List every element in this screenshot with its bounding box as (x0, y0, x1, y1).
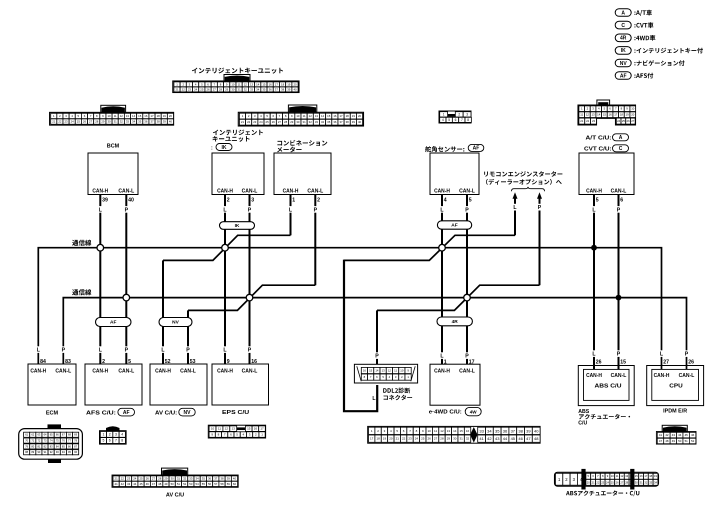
junction bus1 BCM/AFS (open circle) (97, 244, 104, 251)
label P on DDL2 wire (374, 352, 380, 359)
svg-text:8: 8 (121, 439, 123, 443)
svg-text:22: 22 (182, 87, 186, 91)
wire AV C/U CAN-L (187, 310, 189, 364)
box steering angle sensor (425, 144, 484, 213)
svg-text:15: 15 (262, 82, 266, 86)
svg-text:15: 15 (603, 113, 607, 117)
svg-text:36: 36 (269, 87, 273, 91)
svg-text:57: 57 (214, 482, 218, 486)
svg-text:19: 19 (383, 437, 387, 441)
svg-text:39: 39 (163, 120, 167, 124)
svg-text:52: 52 (691, 439, 695, 443)
svg-text:25: 25 (266, 120, 270, 124)
svg-text:32: 32 (120, 120, 124, 124)
svg-text:21: 21 (175, 87, 179, 91)
svg-text:41: 41 (115, 482, 119, 486)
svg-text:C: C (621, 23, 625, 29)
svg-text:20: 20 (358, 114, 362, 118)
svg-text:11: 11 (434, 429, 437, 433)
wire A/T C/U CAN-H to ABS C/U (593, 195, 595, 370)
wire link combination meter CAN-H to bus (163, 235, 291, 260)
svg-text:39: 39 (352, 120, 356, 124)
svg-text:13: 13 (382, 369, 386, 373)
svg-text:AFS C/U:: AFS C/U: (86, 410, 116, 416)
svg-text:32: 32 (309, 120, 313, 124)
svg-text:16: 16 (333, 114, 337, 118)
svg-text:26: 26 (616, 480, 619, 484)
svg-text:CAN-H: CAN-H (434, 188, 450, 194)
svg-text:12: 12 (586, 113, 590, 117)
svg-text:26: 26 (428, 437, 432, 441)
wire remote starter P vertical (539, 211, 541, 286)
svg-text:37: 37 (150, 120, 154, 124)
svg-text:25: 25 (622, 119, 626, 123)
svg-text:12: 12 (620, 474, 623, 478)
svg-text:P: P (538, 205, 542, 211)
svg-text:35: 35 (202, 477, 206, 481)
svg-text:CAN-H: CAN-H (92, 369, 108, 375)
connector ABS actuator C/U (555, 469, 659, 490)
box intelligent key unit (211, 130, 264, 214)
svg-text:13: 13 (232, 427, 236, 431)
svg-text:12: 12 (388, 369, 392, 373)
svg-text:26: 26 (688, 360, 694, 366)
connector steering angle sensor (8-pin) (439, 111, 471, 123)
svg-text:35: 35 (138, 120, 142, 124)
svg-text:34: 34 (132, 120, 136, 124)
svg-text:C/U: C/U (578, 421, 587, 427)
svg-text:7: 7 (115, 439, 117, 443)
svg-text:CAN-H: CAN-H (654, 373, 670, 379)
svg-text:4: 4 (442, 118, 444, 122)
svg-text:CAN-H: CAN-H (586, 373, 602, 379)
svg-text:CAN-H: CAN-H (155, 369, 171, 375)
svg-text:NV: NV (620, 61, 628, 67)
svg-text:25: 25 (139, 477, 143, 481)
svg-text:46: 46 (146, 482, 150, 486)
svg-text:CAN-H: CAN-H (283, 188, 299, 194)
svg-text:ABS C/U: ABS C/U (595, 384, 622, 390)
svg-text:38: 38 (220, 477, 224, 481)
wire BCM CAN-H to AFS C/U (99, 195, 101, 365)
label DDL2 connector (372, 388, 412, 402)
svg-text:41: 41 (479, 436, 484, 441)
svg-text:27: 27 (152, 477, 156, 481)
connector A/T C/U (top-right) (578, 100, 636, 125)
svg-text::: : (211, 145, 213, 151)
svg-text:25: 25 (77, 120, 81, 124)
connector AFS C/U (8-pin) (100, 426, 127, 444)
connector IPDM E/R (656, 425, 696, 444)
svg-text:26: 26 (596, 360, 602, 366)
arrow remote starter L (513, 192, 518, 211)
wire combination meter CAN-L (314, 195, 316, 286)
svg-text:44: 44 (133, 482, 137, 486)
svg-text:17: 17 (370, 437, 374, 441)
svg-text:12: 12 (244, 82, 248, 86)
svg-text:CAN-H: CAN-H (92, 188, 108, 194)
box ECM (28, 346, 76, 416)
svg-text:40: 40 (169, 120, 173, 124)
svg-text:40: 40 (534, 428, 539, 433)
svg-text:15: 15 (327, 114, 331, 118)
svg-text:27: 27 (620, 480, 623, 484)
svg-text:12: 12 (440, 429, 444, 433)
box AV C/U (150, 346, 207, 416)
junction bus1 IK/EPS (open circle) (222, 244, 229, 251)
svg-text:58: 58 (220, 482, 224, 486)
svg-text:30: 30 (231, 87, 235, 91)
svg-text:CAN-L: CAN-L (307, 188, 323, 194)
svg-text:14: 14 (321, 114, 325, 118)
svg-text:9: 9 (227, 359, 230, 365)
junction bus2 IK/EPS (open circle) (246, 294, 253, 301)
wire steering angle sensor CAN-H to e-4WD C/U (441, 195, 443, 365)
svg-text:P: P (125, 207, 129, 213)
svg-text:23: 23 (188, 87, 192, 91)
svg-text:3: 3 (466, 113, 468, 117)
svg-text:31: 31 (238, 87, 242, 91)
svg-text:16: 16 (466, 429, 470, 433)
svg-text:16: 16 (609, 113, 613, 117)
svg-text:30: 30 (453, 437, 457, 441)
svg-text:21: 21 (115, 477, 119, 481)
svg-text:IK: IK (222, 145, 227, 151)
svg-text:15: 15 (369, 369, 373, 373)
svg-text:P: P (186, 348, 190, 354)
svg-text:35: 35 (262, 87, 266, 91)
svg-text:20: 20 (631, 113, 635, 117)
svg-text:10: 10 (400, 369, 404, 373)
svg-text:24: 24 (415, 437, 419, 441)
svg-text:48: 48 (665, 439, 669, 443)
svg-text:19: 19 (352, 114, 356, 118)
box A/T C/U / CVT C/U (579, 134, 634, 214)
wire combination meter CAN-H (290, 195, 292, 236)
svg-text:IK: IK (235, 223, 240, 229)
svg-text:18: 18 (376, 437, 380, 441)
svg-text:10: 10 (211, 427, 215, 431)
svg-text:31: 31 (640, 480, 643, 484)
wire link remote starter L to bus (344, 235, 515, 260)
svg-text:33: 33 (315, 120, 319, 124)
svg-text:1: 1 (443, 113, 445, 117)
svg-text:27: 27 (631, 119, 635, 123)
connector ECM (multi-pin block) (19, 424, 83, 463)
svg-text:C: C (619, 146, 623, 152)
svg-text:40: 40 (358, 120, 362, 124)
svg-text:44: 44 (678, 433, 682, 437)
svg-text:37: 37 (511, 428, 516, 433)
svg-text:19: 19 (287, 82, 291, 86)
svg-text:37: 37 (214, 477, 218, 481)
box AFS C/U (85, 346, 142, 416)
svg-text:15: 15 (635, 474, 638, 478)
svg-text:25: 25 (611, 480, 614, 484)
svg-text:14: 14 (453, 429, 457, 433)
svg-text:A/T C/U:: A/T C/U: (586, 135, 612, 141)
svg-text:21: 21 (396, 437, 400, 441)
svg-text:IK: IK (621, 48, 626, 54)
svg-text:CAN-H: CAN-H (434, 369, 450, 375)
svg-text:25: 25 (421, 437, 425, 441)
svg-text:30: 30 (296, 120, 300, 124)
svg-text:10: 10 (428, 429, 432, 433)
svg-text:31: 31 (303, 120, 307, 124)
arrow remote starter P (537, 192, 542, 211)
svg-text:26: 26 (83, 120, 87, 124)
svg-text:22: 22 (586, 119, 590, 123)
connector EPS C/U (208, 425, 265, 438)
svg-text:16: 16 (144, 114, 148, 118)
svg-text:39: 39 (102, 198, 108, 204)
svg-text:24: 24 (133, 477, 137, 481)
wire AV C/U CAN-H (162, 260, 164, 364)
svg-text:33: 33 (649, 480, 652, 484)
svg-text:27: 27 (213, 87, 217, 91)
svg-text:46: 46 (691, 433, 695, 437)
wire steering angle sensor CAN-L to e-4WD C/U (466, 195, 468, 365)
svg-text:CAN-L: CAN-L (459, 369, 475, 375)
svg-text:15: 15 (459, 429, 463, 433)
svg-text:43: 43 (672, 433, 676, 437)
svg-text:53: 53 (189, 482, 193, 486)
wire link combination meter CAN-L to bus (188, 285, 315, 310)
svg-text:23: 23 (127, 477, 131, 481)
svg-text:13: 13 (447, 429, 451, 433)
svg-text:33: 33 (479, 428, 484, 433)
connector AV C/U (40-pin) (112, 468, 238, 487)
svg-text:11: 11 (580, 113, 583, 117)
box combination meter (274, 140, 331, 213)
legend item NV (615, 59, 684, 67)
svg-text:21: 21 (592, 480, 595, 484)
svg-text:24: 24 (194, 87, 198, 91)
svg-text:38: 38 (281, 87, 285, 91)
svg-text:AF: AF (473, 146, 480, 152)
svg-text:12: 12 (225, 427, 229, 431)
svg-text:3: 3 (115, 433, 117, 437)
svg-text:7: 7 (461, 118, 463, 122)
wire DDL2 connector L (from bus via joint) (344, 260, 377, 412)
svg-text:33: 33 (250, 87, 254, 91)
option oval 4R on e-4WD wires (437, 317, 472, 326)
svg-text:11: 11 (394, 369, 397, 373)
svg-text:17: 17 (150, 114, 154, 118)
svg-text:33: 33 (189, 477, 193, 481)
svg-text:52: 52 (183, 482, 187, 486)
svg-text:16: 16 (269, 82, 273, 86)
legend item C (615, 21, 653, 29)
wire link remote starter P to bus (377, 285, 540, 310)
svg-text:5: 5 (102, 439, 104, 443)
svg-text:17: 17 (614, 113, 618, 117)
wire DDL2 connector P (376, 310, 378, 365)
box BCM (88, 144, 138, 214)
svg-text:4: 4 (444, 198, 447, 204)
svg-text:38: 38 (346, 120, 350, 124)
svg-text:51: 51 (177, 482, 181, 486)
svg-text:14: 14 (132, 114, 136, 118)
svg-text:26: 26 (627, 119, 631, 123)
svg-text:45: 45 (511, 436, 516, 441)
svg-text:5: 5 (596, 198, 599, 204)
junction bus1 A/T-ABS (solid dot) (591, 245, 597, 251)
svg-text:47: 47 (526, 436, 531, 441)
svg-text:48: 48 (158, 482, 162, 486)
connector DDL2 diagnostic (354, 364, 417, 383)
svg-text:25: 25 (200, 87, 204, 91)
svg-text:17: 17 (260, 427, 264, 431)
svg-text:50: 50 (678, 439, 682, 443)
svg-text:18: 18 (620, 113, 624, 117)
wire CAN-H bus (tsushinsen 1) (38, 248, 661, 370)
svg-text:21: 21 (580, 119, 584, 123)
svg-text:24: 24 (617, 119, 621, 123)
svg-text:49: 49 (164, 482, 168, 486)
svg-text:6: 6 (620, 198, 623, 204)
svg-text:CAN-L: CAN-L (118, 369, 134, 375)
legend item AF (615, 72, 653, 80)
svg-text:AF: AF (451, 223, 457, 229)
svg-text:35: 35 (495, 428, 500, 433)
svg-text:31: 31 (177, 477, 181, 481)
label tsushinsen lower (72, 289, 91, 295)
svg-text:32: 32 (466, 437, 470, 441)
svg-text:18: 18 (649, 474, 652, 478)
svg-text:34: 34 (487, 428, 492, 433)
svg-text:P: P (125, 348, 129, 354)
svg-text:30: 30 (635, 480, 638, 484)
svg-text:34: 34 (196, 477, 200, 481)
svg-text:83: 83 (65, 359, 71, 365)
svg-text:21: 21 (52, 120, 56, 124)
svg-text:46: 46 (518, 436, 523, 441)
svg-text:P: P (248, 348, 252, 354)
svg-text:1: 1 (292, 198, 295, 204)
svg-text:NV: NV (184, 410, 192, 416)
svg-text:29: 29 (290, 120, 294, 124)
svg-text:15: 15 (620, 360, 626, 366)
svg-text:BCM: BCM (107, 144, 120, 150)
svg-text:CAN-H: CAN-H (217, 188, 233, 194)
svg-text:2: 2 (102, 359, 105, 365)
svg-text:10: 10 (631, 107, 635, 111)
svg-text:32: 32 (183, 477, 187, 481)
svg-text:A: A (619, 135, 623, 141)
junction bus1 steering/e-4WD (open circle) (439, 244, 446, 251)
svg-text:52: 52 (165, 359, 171, 365)
svg-text:IPDM E/R: IPDM E/R (663, 409, 687, 415)
svg-text:16: 16 (363, 369, 367, 373)
svg-text:CAN-L: CAN-L (611, 373, 627, 379)
svg-text:40: 40 (233, 477, 237, 481)
svg-text:28: 28 (625, 480, 628, 484)
svg-text:39: 39 (526, 428, 531, 433)
junction bus2 A/T-ABS (solid dot) (616, 295, 622, 301)
svg-text:18: 18 (157, 114, 161, 118)
svg-text:13: 13 (315, 114, 319, 118)
svg-text:P: P (617, 207, 621, 213)
svg-text:1: 1 (444, 360, 447, 366)
svg-text:11: 11 (303, 114, 306, 118)
svg-text:37: 37 (275, 87, 279, 91)
svg-text:23: 23 (64, 120, 68, 124)
svg-text:CAN-L: CAN-L (242, 369, 258, 375)
svg-text:36: 36 (333, 120, 337, 124)
label intelligent key unit connector (192, 68, 283, 74)
svg-text:84: 84 (40, 359, 46, 365)
legend item A (615, 9, 652, 17)
svg-text:2: 2 (227, 198, 230, 204)
svg-text:42: 42 (665, 433, 669, 437)
svg-text:26: 26 (146, 477, 150, 481)
svg-text:AV C/U: AV C/U (166, 493, 184, 499)
svg-text:24: 24 (259, 120, 263, 124)
svg-text:23: 23 (592, 119, 596, 123)
svg-text:42: 42 (487, 436, 492, 441)
svg-text:EPS C/U: EPS C/U (222, 410, 250, 416)
wire CAN-L bus (tsushinsen 2) (63, 298, 686, 370)
svg-text:P: P (248, 207, 252, 213)
svg-text:21: 21 (241, 120, 245, 124)
svg-text:20: 20 (169, 114, 173, 118)
svg-text:15: 15 (138, 114, 142, 118)
svg-text:22: 22 (596, 480, 599, 484)
svg-text:22: 22 (58, 120, 62, 124)
svg-text:18: 18 (281, 82, 285, 86)
svg-text:27: 27 (663, 360, 669, 366)
svg-text:17: 17 (469, 360, 475, 366)
svg-text:4R: 4R (620, 36, 627, 42)
option oval AF on steering sensor wires (437, 221, 471, 229)
svg-text:23: 23 (408, 437, 412, 441)
svg-text:3: 3 (251, 198, 254, 204)
svg-text:16: 16 (640, 474, 643, 478)
svg-text:13: 13 (625, 474, 628, 478)
svg-text:27: 27 (434, 437, 438, 441)
svg-text:P: P (465, 207, 469, 213)
svg-text:14: 14 (375, 369, 379, 373)
svg-text:17: 17 (644, 474, 647, 478)
svg-text:38: 38 (518, 428, 523, 433)
connector BCM (top-left 40-pin) (50, 105, 174, 125)
svg-text:13: 13 (250, 82, 254, 86)
svg-text:CPU: CPU (669, 384, 683, 390)
junction bus2 steering/e-4WD (open circle) (464, 294, 471, 301)
svg-text:P: P (314, 207, 318, 213)
svg-text:35: 35 (327, 120, 331, 124)
svg-text:32: 32 (244, 87, 248, 91)
connector intelligent key unit (top-center 40-pin) (173, 75, 299, 93)
svg-text:CAN-L: CAN-L (611, 188, 627, 194)
svg-text:14: 14 (597, 113, 601, 117)
svg-text:31: 31 (459, 437, 463, 441)
svg-text:CAN-H: CAN-H (217, 369, 233, 375)
wire remote starter L vertical (514, 211, 516, 236)
connector joint 48-pin (center bottom) (368, 426, 540, 443)
svg-text:28: 28 (158, 477, 162, 481)
svg-text:27: 27 (89, 120, 93, 124)
svg-text:16: 16 (251, 359, 257, 365)
svg-text:34: 34 (321, 120, 325, 124)
svg-text:28: 28 (219, 87, 223, 91)
svg-text:29: 29 (101, 120, 105, 124)
svg-text:40: 40 (293, 87, 297, 91)
svg-text:41: 41 (659, 433, 663, 437)
label ABS actuator C/U (566, 490, 639, 496)
svg-text:5: 5 (128, 359, 131, 365)
